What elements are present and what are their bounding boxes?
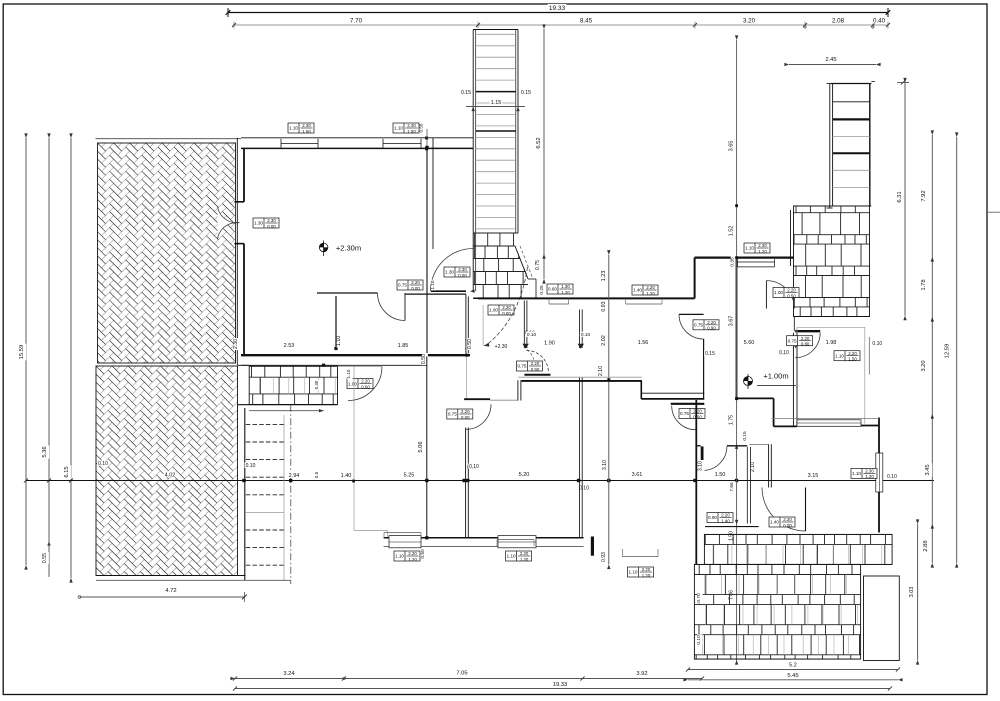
svg-text:19.33: 19.33 — [549, 5, 566, 12]
svg-text:0.10: 0.10 — [579, 486, 589, 492]
svg-text:1.20: 1.20 — [758, 249, 767, 254]
svg-text:0.00: 0.00 — [461, 415, 470, 420]
svg-text:1.50: 1.50 — [302, 129, 311, 134]
svg-text:0.00: 0.00 — [783, 523, 792, 528]
svg-text:2.20: 2.20 — [646, 285, 655, 290]
svg-text:1.10: 1.10 — [346, 369, 351, 378]
svg-text:1.56: 1.56 — [638, 340, 649, 346]
svg-text:0.25: 0.25 — [539, 285, 545, 295]
svg-text:0.90: 0.90 — [531, 367, 540, 372]
svg-text:0.15: 0.15 — [521, 90, 531, 96]
svg-text:2.20: 2.20 — [801, 336, 810, 341]
svg-text:0.50: 0.50 — [420, 549, 426, 559]
svg-text:0.10: 0.10 — [779, 350, 789, 356]
svg-text:1.20: 1.20 — [646, 291, 655, 296]
svg-text:0.90: 0.90 — [708, 515, 717, 520]
svg-text:7.70: 7.70 — [350, 18, 363, 25]
svg-text:1.10: 1.10 — [852, 471, 861, 476]
svg-text:3.45: 3.45 — [925, 464, 931, 475]
svg-text:2.30: 2.30 — [458, 267, 467, 272]
svg-text:0.75: 0.75 — [448, 412, 457, 417]
svg-text:0.55: 0.55 — [42, 553, 48, 563]
svg-text:6.52: 6.52 — [536, 137, 542, 148]
svg-text:2.20: 2.20 — [642, 567, 651, 572]
svg-text:2.20: 2.20 — [707, 320, 716, 325]
svg-text:2.08: 2.08 — [832, 18, 845, 25]
svg-text:1.50: 1.50 — [715, 472, 726, 478]
svg-text:3.10: 3.10 — [602, 460, 608, 470]
svg-text:0.00: 0.00 — [411, 286, 420, 291]
svg-text:6.15: 6.15 — [64, 466, 70, 477]
svg-text:2.30: 2.30 — [407, 123, 416, 128]
svg-text:2.02: 2.02 — [601, 335, 607, 346]
svg-text:1.40: 1.40 — [341, 473, 352, 479]
svg-text:1.50: 1.50 — [848, 357, 857, 362]
svg-text:0.75: 0.75 — [518, 364, 527, 369]
svg-text:1.40: 1.40 — [721, 518, 730, 523]
svg-text:0.5: 0.5 — [314, 471, 319, 478]
svg-text:2.20: 2.20 — [520, 551, 529, 556]
svg-text:0.15: 0.15 — [461, 90, 471, 96]
svg-text:1.10: 1.10 — [336, 336, 342, 347]
svg-text:1.00: 1.00 — [489, 308, 498, 313]
svg-text:1.20: 1.20 — [408, 557, 417, 562]
svg-text:4.72: 4.72 — [165, 588, 176, 594]
svg-text:1.10: 1.10 — [835, 353, 844, 358]
svg-text:1.10: 1.10 — [430, 280, 435, 289]
svg-text:1.10: 1.10 — [629, 570, 638, 575]
svg-text:0.90: 0.90 — [707, 326, 716, 331]
svg-text:1.40: 1.40 — [770, 520, 779, 525]
svg-text:3.24: 3.24 — [283, 671, 295, 677]
svg-text:1.10: 1.10 — [394, 126, 403, 131]
svg-text:7.05: 7.05 — [456, 671, 467, 677]
svg-text:0.30: 0.30 — [314, 380, 319, 389]
svg-text:1.10: 1.10 — [395, 554, 404, 559]
svg-text:2.88: 2.88 — [923, 540, 929, 551]
svg-text:1.75: 1.75 — [728, 415, 734, 425]
svg-text:0.93: 0.93 — [601, 552, 607, 562]
svg-text:1.98: 1.98 — [826, 340, 837, 346]
svg-text:+2.30: +2.30 — [495, 344, 508, 350]
svg-text:2.20: 2.20 — [721, 513, 730, 518]
svg-text:3.15: 3.15 — [808, 473, 819, 479]
svg-text:0.10: 0.10 — [696, 635, 702, 645]
svg-text:0.10: 0.10 — [581, 332, 591, 338]
svg-text:8.45: 8.45 — [580, 18, 593, 25]
svg-text:1.15: 1.15 — [491, 100, 502, 106]
svg-text:1.20: 1.20 — [642, 573, 651, 578]
svg-text:1.30: 1.30 — [561, 284, 570, 289]
svg-text:3.67: 3.67 — [728, 316, 734, 327]
svg-text:2.20: 2.20 — [693, 409, 702, 414]
svg-text:0.00: 0.00 — [502, 311, 511, 316]
svg-text:6.31: 6.31 — [897, 191, 903, 202]
svg-text:0.75: 0.75 — [680, 411, 689, 416]
svg-text:5.45: 5.45 — [787, 673, 798, 679]
svg-text:1.23: 1.23 — [601, 271, 607, 282]
svg-text:3.10: 3.10 — [698, 461, 704, 471]
svg-text:7.92: 7.92 — [921, 190, 927, 201]
svg-text:2.30: 2.30 — [865, 469, 874, 474]
svg-text:3.92: 3.92 — [636, 671, 647, 677]
svg-text:5.2: 5.2 — [789, 663, 797, 669]
svg-text:1.30: 1.30 — [445, 270, 454, 275]
svg-text:3.20: 3.20 — [921, 360, 927, 371]
svg-text:2.30: 2.30 — [302, 123, 311, 128]
svg-text:0.70: 0.70 — [696, 593, 702, 603]
svg-text:0.15: 0.15 — [742, 431, 748, 441]
svg-text:3.65: 3.65 — [728, 141, 734, 152]
svg-text:2.45: 2.45 — [825, 57, 836, 63]
svg-text:0.10: 0.10 — [527, 332, 537, 338]
svg-text:5.36: 5.36 — [42, 446, 48, 457]
svg-text:2.20: 2.20 — [361, 379, 370, 384]
svg-text:2.20: 2.20 — [848, 351, 857, 356]
svg-text:0.15: 0.15 — [705, 351, 715, 357]
svg-text:0.80: 0.80 — [801, 342, 810, 347]
svg-text:2.30: 2.30 — [758, 243, 767, 248]
svg-text:1.50: 1.50 — [407, 129, 416, 134]
svg-text:0.50: 0.50 — [419, 123, 424, 132]
svg-text:2.30: 2.30 — [267, 218, 276, 223]
svg-text:5.60: 5.60 — [744, 340, 755, 346]
svg-text:1.10: 1.10 — [289, 126, 298, 131]
svg-text:2.20: 2.20 — [408, 551, 417, 556]
svg-text:12.59: 12.59 — [945, 344, 951, 359]
svg-text:0.50: 0.50 — [421, 354, 427, 364]
svg-text:2.10: 2.10 — [598, 366, 604, 376]
svg-text:3.20: 3.20 — [743, 18, 756, 25]
svg-text:1.10: 1.10 — [745, 246, 754, 251]
svg-text:0.75: 0.75 — [535, 260, 541, 270]
svg-text:2.20: 2.20 — [461, 409, 470, 414]
svg-text:0.00: 0.00 — [693, 414, 702, 419]
svg-text:+2.30m: +2.30m — [336, 244, 361, 253]
svg-text:0.10: 0.10 — [246, 463, 256, 469]
svg-text:2.10: 2.10 — [750, 462, 756, 472]
svg-text:1.85: 1.85 — [398, 343, 409, 349]
svg-text:0.10: 0.10 — [872, 341, 882, 347]
svg-text:0.75: 0.75 — [694, 323, 703, 328]
svg-text:1.40: 1.40 — [633, 288, 642, 293]
svg-text:1.00: 1.00 — [774, 290, 783, 295]
svg-text:0.60: 0.60 — [548, 287, 557, 292]
svg-text:2.20: 2.20 — [502, 305, 511, 310]
svg-text:19.33: 19.33 — [553, 682, 568, 688]
svg-text:2.53: 2.53 — [284, 343, 295, 349]
svg-text:3.03: 3.03 — [909, 587, 915, 598]
svg-text:1.20: 1.20 — [561, 290, 570, 295]
svg-text:0.10: 0.10 — [469, 464, 479, 470]
svg-text:2.30: 2.30 — [233, 339, 239, 349]
svg-text:0.50: 0.50 — [787, 293, 796, 298]
svg-text:1.00: 1.00 — [348, 381, 357, 386]
svg-text:0.50: 0.50 — [467, 339, 473, 349]
svg-text:2.20: 2.20 — [783, 517, 792, 522]
svg-text:3.61: 3.61 — [632, 472, 643, 478]
svg-text:1.10: 1.10 — [507, 554, 516, 559]
svg-text:2.20: 2.20 — [411, 280, 420, 285]
svg-text:5.06: 5.06 — [418, 441, 424, 452]
svg-text:0.40: 0.40 — [873, 18, 886, 25]
svg-text:1.20: 1.20 — [865, 474, 874, 479]
svg-text:0.75: 0.75 — [398, 283, 407, 288]
svg-text:5.20: 5.20 — [519, 472, 530, 478]
svg-text:0.10: 0.10 — [98, 461, 108, 467]
svg-text:+1.00m: +1.00m — [763, 372, 788, 381]
svg-text:15.59: 15.59 — [19, 345, 25, 360]
svg-text:4.02: 4.02 — [165, 473, 176, 479]
svg-text:0.93: 0.93 — [601, 301, 607, 311]
svg-text:1.90: 1.90 — [544, 341, 555, 347]
svg-text:0.00: 0.00 — [458, 273, 467, 278]
svg-text:1.52: 1.52 — [728, 226, 734, 237]
svg-text:1.78: 1.78 — [921, 279, 927, 290]
svg-text:0.10: 0.10 — [887, 474, 897, 480]
svg-text:1.30: 1.30 — [254, 221, 263, 226]
svg-text:0.75: 0.75 — [788, 338, 797, 343]
svg-text:0.35: 0.35 — [730, 257, 736, 267]
svg-text:0.00: 0.00 — [361, 384, 370, 389]
svg-text:0.00: 0.00 — [267, 224, 276, 229]
svg-text:2.20: 2.20 — [531, 361, 540, 366]
svg-text:1.20: 1.20 — [520, 557, 529, 562]
svg-text:5.25: 5.25 — [404, 473, 415, 479]
svg-text:7.66: 7.66 — [729, 482, 735, 492]
svg-text:2.94: 2.94 — [289, 473, 300, 479]
svg-text:2.20: 2.20 — [787, 288, 796, 293]
